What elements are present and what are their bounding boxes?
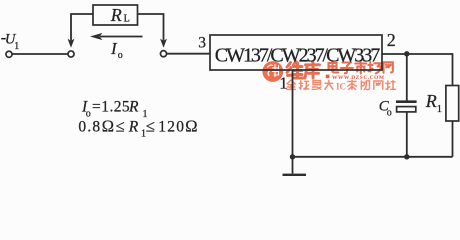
watermark logo circle bbox=[262, 61, 283, 82]
wire: Co down to bottom rail bbox=[406, 112, 408, 157]
wire: node B to pin 3 bbox=[167, 53, 211, 55]
wire: pin 2 to right rail bbox=[382, 54, 453, 86]
svg-text:≤: ≤ bbox=[146, 117, 155, 136]
watermark text 电子市场网 bbox=[329, 61, 393, 74]
svg-text:3: 3 bbox=[198, 34, 206, 51]
watermark big text 维库 bbox=[287, 62, 320, 79]
svg-text:o: o bbox=[118, 50, 123, 61]
svg-text:R: R bbox=[110, 5, 122, 25]
svg-text:1: 1 bbox=[437, 103, 443, 115]
arrowhead down into node A bbox=[68, 39, 75, 48]
svg-text:120: 120 bbox=[158, 119, 185, 136]
wire: pin 1 (adj) down to bottom rail bbox=[292, 70, 294, 157]
resistor RL bbox=[93, 5, 138, 25]
junction dot at Co branch bbox=[404, 51, 409, 56]
svg-text:CW137/CW237/CW337: CW137/CW237/CW337 bbox=[215, 45, 381, 67]
svg-text:R: R bbox=[128, 119, 139, 136]
svg-text:2: 2 bbox=[387, 30, 396, 50]
ground bbox=[292, 157, 294, 174]
wire: junction down to Co bbox=[406, 54, 408, 101]
capacitor Co bbox=[396, 100, 417, 103]
node B (open circle) bbox=[160, 51, 166, 57]
svg-text:0.8: 0.8 bbox=[78, 119, 101, 136]
svg-text:1: 1 bbox=[14, 41, 19, 52]
wire: RL right side down to node B bbox=[138, 14, 164, 41]
regulator U1 CW137/CW237/CW337 bbox=[210, 35, 382, 70]
resistor R1 bbox=[446, 86, 459, 122]
svg-text:L: L bbox=[124, 13, 130, 24]
wire: node A up and over to RL (left side) bbox=[71, 14, 93, 41]
junction dot pin1/bottom rail bbox=[290, 154, 295, 159]
svg-text:R: R bbox=[128, 98, 139, 115]
svg-text:o: o bbox=[387, 107, 392, 118]
node A (open circle) bbox=[68, 51, 74, 57]
wire: input terminal to node A bbox=[12, 53, 69, 55]
watermark row2 全球最大IC采购网站 bbox=[287, 80, 333, 89]
svg-text:=: = bbox=[92, 98, 101, 115]
formula Io = 1.25 R1 bbox=[81, 98, 148, 120]
arrowhead down into node B bbox=[160, 39, 167, 48]
junction dot Co/bottom rail bbox=[404, 154, 409, 159]
bottom rail wire bbox=[293, 156, 453, 158]
svg-text:R: R bbox=[425, 91, 437, 111]
formula 0.8 <= R1 <= 120 ohm bbox=[78, 117, 197, 140]
terminal -U1 bbox=[6, 51, 12, 57]
svg-text:1.25: 1.25 bbox=[101, 98, 130, 115]
current arrow Io (pointing left) bbox=[100, 36, 143, 38]
svg-text:Ω: Ω bbox=[185, 117, 197, 136]
svg-text:IC: IC bbox=[336, 81, 346, 91]
label -U1 bbox=[1, 38, 6, 40]
svg-text:1: 1 bbox=[279, 73, 288, 92]
wire: R1 down to bottom rail corner bbox=[452, 121, 454, 157]
svg-text:≤: ≤ bbox=[116, 117, 125, 136]
watermark www.dzsc.com bbox=[326, 75, 385, 82]
svg-text:Ω: Ω bbox=[102, 117, 114, 136]
